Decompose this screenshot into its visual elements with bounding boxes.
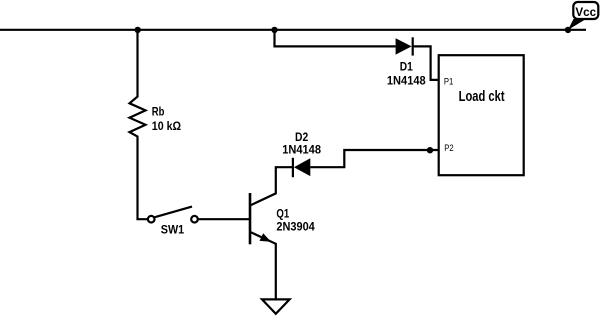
svg-text:P2: P2 [444,143,453,153]
svg-text:P1: P1 [444,76,453,86]
svg-text:Vcc: Vcc [575,5,596,19]
svg-text:1N4148: 1N4148 [282,143,321,157]
svg-text:Load ckt: Load ckt [459,88,505,105]
svg-text:SW1: SW1 [161,223,185,237]
svg-text:10 kΩ: 10 kΩ [152,119,182,133]
svg-text:Rb: Rb [152,105,165,119]
svg-text:D1: D1 [400,60,413,74]
svg-text:1N4148: 1N4148 [387,74,426,88]
svg-text:2N3904: 2N3904 [276,219,315,233]
